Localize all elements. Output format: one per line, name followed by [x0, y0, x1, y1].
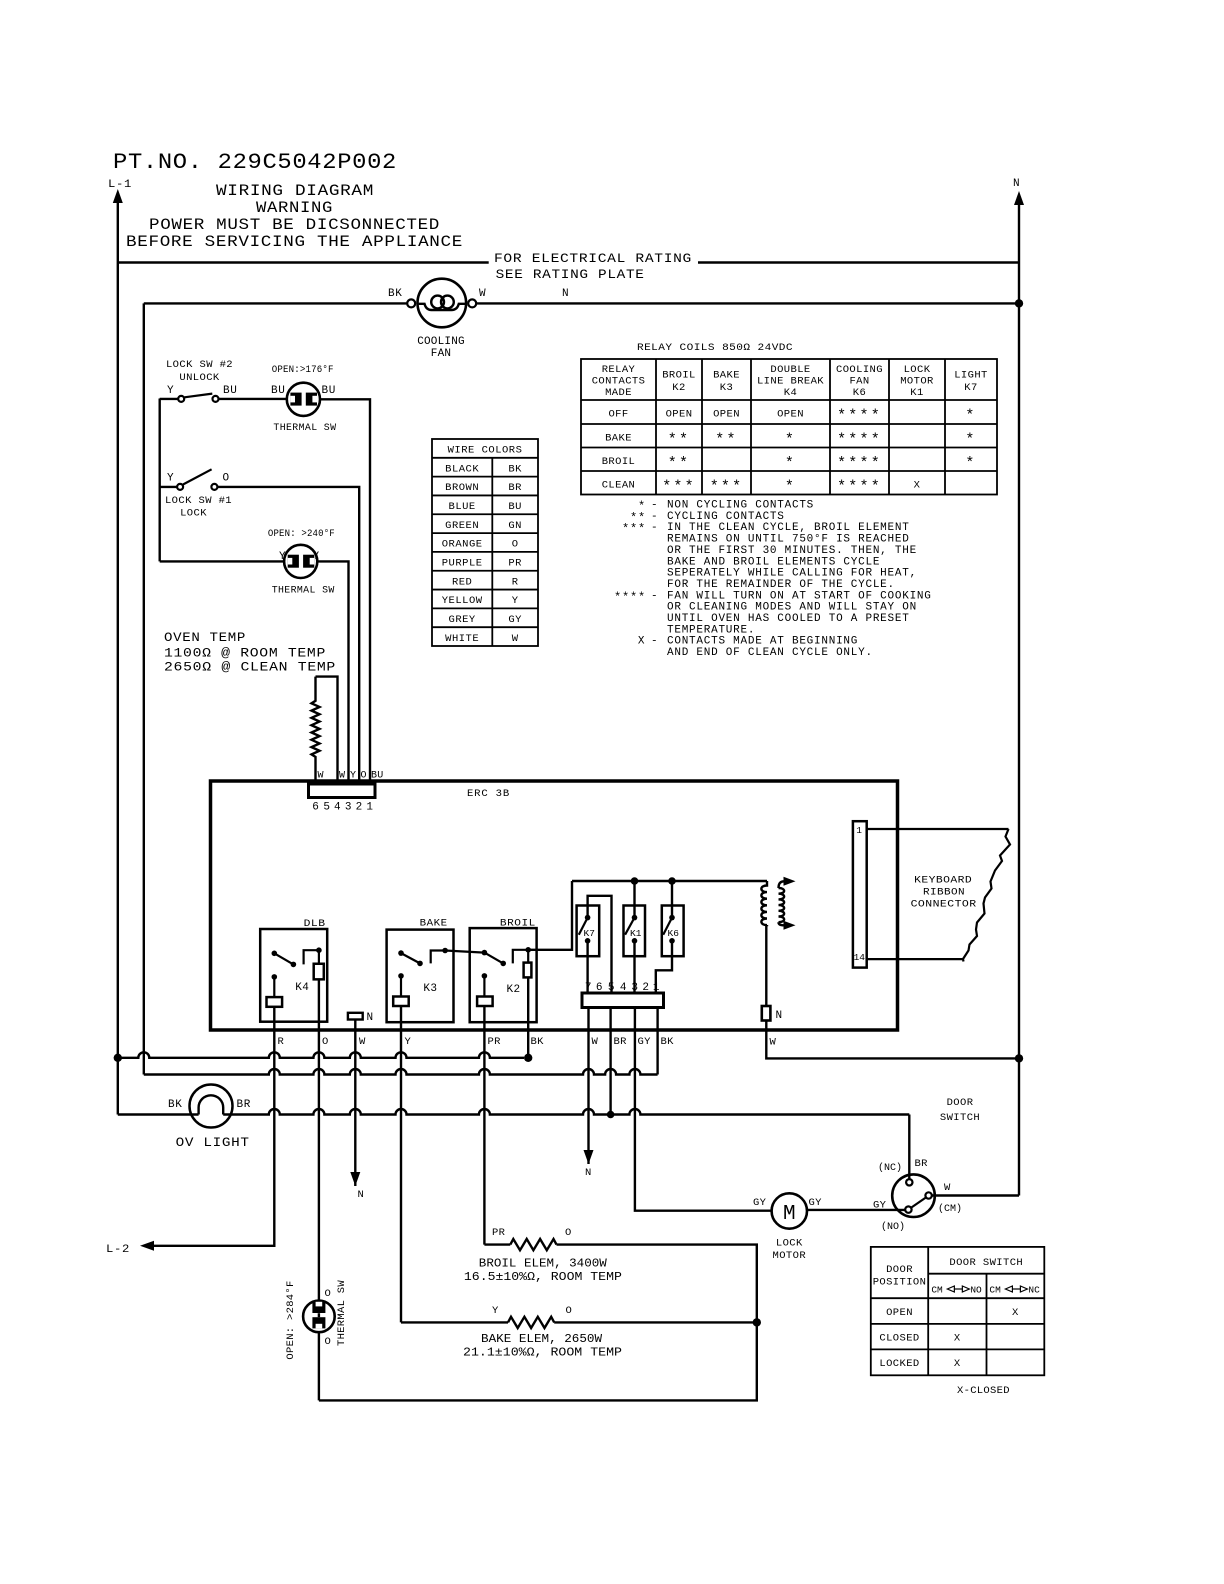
wire transformer primary to N fuse	[765, 925, 767, 1006]
svg-text:Y: Y	[350, 771, 357, 782]
svg-text:BK: BK	[508, 463, 522, 475]
svg-text:CONTACTS MADE AT BEGINNING: CONTACTS MADE AT BEGINNING	[667, 636, 858, 648]
svg-text:RELAY: RELAY	[602, 364, 636, 376]
svg-text:K1: K1	[910, 387, 923, 399]
wire BK bus L1 feed	[144, 1069, 658, 1075]
svg-text:CLOSED: CLOSED	[879, 1333, 919, 1345]
wire rail to thermal sw 240F	[160, 560, 285, 562]
svg-text:*: *	[785, 431, 796, 448]
svg-text:LOCK: LOCK	[180, 508, 207, 520]
svg-text:ORANGE: ORANGE	[442, 539, 483, 551]
svg-text:W: W	[339, 771, 346, 782]
svg-text:-: -	[651, 522, 658, 534]
svg-text:***: ***	[622, 522, 646, 536]
svg-text:WIRE COLORS: WIRE COLORS	[448, 445, 523, 457]
svg-text:K4: K4	[295, 982, 309, 994]
wire Y to bake element	[401, 1321, 508, 1323]
svg-text:N: N	[1013, 178, 1020, 190]
svg-text:K3: K3	[720, 382, 733, 394]
svg-text:BAKE: BAKE	[420, 918, 448, 930]
svg-text:DOUBLE: DOUBLE	[770, 364, 810, 376]
svg-text:**: **	[668, 455, 690, 472]
svg-text:BLACK: BLACK	[445, 463, 479, 475]
svg-text:BU: BU	[271, 385, 285, 397]
svg-text:BROIL: BROIL	[500, 918, 536, 930]
switch lock SW #2	[160, 398, 178, 400]
wire lock sw1 to ERC pin 2	[218, 487, 360, 784]
svg-text:1: 1	[856, 825, 862, 836]
wire K6 to pin 1	[656, 941, 672, 993]
wire K4 to O	[318, 979, 320, 1300]
svg-text:BK: BK	[168, 1099, 182, 1111]
svg-text:W: W	[359, 1036, 366, 1048]
thermal switch 240F	[284, 545, 317, 578]
svg-text:14: 14	[854, 952, 866, 963]
switch lock SW #1	[160, 486, 177, 488]
svg-text:K7: K7	[964, 382, 977, 394]
svg-text:NO: NO	[970, 1285, 982, 1296]
svg-text:THERMAL SW: THERMAL SW	[336, 1280, 348, 1346]
relay K2 left terminal	[482, 973, 488, 979]
svg-text:O: O	[566, 1305, 573, 1317]
svg-text:O: O	[223, 473, 230, 485]
svg-text:PT.NO. 229C5042P002: PT.NO. 229C5042P002	[113, 150, 397, 175]
svg-text:SEE RATING PLATE: SEE RATING PLATE	[496, 267, 645, 282]
wire elements return line	[319, 1322, 757, 1400]
resistor oven temp sensor	[316, 677, 338, 784]
transformer relay coil supply	[761, 881, 767, 925]
svg-text:2: 2	[356, 802, 363, 814]
table relay contacts	[581, 359, 997, 495]
wire relay coil bus	[572, 880, 767, 882]
svg-text:****: ****	[837, 431, 882, 448]
svg-text:PR: PR	[492, 1227, 506, 1239]
svg-text:N: N	[562, 288, 569, 300]
switch door switch	[892, 1174, 935, 1217]
svg-text:BK: BK	[531, 1036, 545, 1048]
wire L1 to OV light	[118, 1113, 199, 1115]
svg-text:X: X	[1012, 1307, 1019, 1319]
svg-text:Y: Y	[512, 595, 519, 607]
relay K2 contact	[482, 950, 488, 956]
svg-text:NC: NC	[1028, 1285, 1040, 1296]
lamp OV LIGHT	[190, 1085, 233, 1128]
svg-text:****: ****	[837, 408, 882, 425]
svg-text:K7: K7	[584, 928, 595, 939]
wire ribbon cable top edge	[867, 828, 1009, 830]
svg-text:W: W	[944, 1182, 951, 1194]
svg-text:X-CLOSED: X-CLOSED	[957, 1385, 1010, 1397]
connector N spade	[348, 1013, 363, 1020]
connector ERC 6-pin	[309, 784, 376, 798]
svg-text:REMAINS ON UNTIL 750°F IS REAC: REMAINS ON UNTIL 750°F IS REACHED	[667, 534, 910, 546]
svg-text:O: O	[565, 1227, 572, 1239]
svg-text:***: ***	[662, 478, 696, 495]
wire K3 fixed contact to K2 pivot	[445, 951, 484, 953]
svg-text:BK: BK	[388, 288, 402, 300]
resistor broil element	[510, 1239, 556, 1250]
wire BK keyboard	[656, 1008, 658, 1075]
svg-text:BK: BK	[661, 1036, 675, 1048]
svg-text:BR: BR	[508, 482, 522, 494]
wire K2 common to relay coil bus	[528, 881, 572, 950]
svg-text:R: R	[512, 576, 519, 588]
svg-text:MADE: MADE	[605, 387, 632, 399]
svg-text:THERMAL SW: THERMAL SW	[273, 422, 336, 434]
wire ribbon cable bottom edge	[867, 958, 963, 960]
svg-text:LINE BREAK: LINE BREAK	[757, 376, 824, 388]
svg-text:WHITE: WHITE	[445, 633, 479, 645]
wire L1 bus to BROIL BK	[118, 1052, 524, 1058]
svg-text:W: W	[479, 288, 486, 300]
wire broil element to common	[557, 1245, 757, 1323]
svg-text:WARNING: WARNING	[256, 199, 333, 217]
table wire colors	[432, 439, 538, 646]
motor lock motor	[772, 1193, 807, 1228]
svg-text:O: O	[325, 1288, 332, 1300]
wire thermal 240F to ERC pin 3	[317, 561, 348, 784]
svg-text:GY: GY	[638, 1036, 652, 1048]
svg-text:PR: PR	[488, 1036, 502, 1048]
svg-text:NON CYCLING CONTACTS: NON CYCLING CONTACTS	[667, 500, 814, 512]
svg-text:5: 5	[323, 802, 330, 814]
svg-text:OPEN:>176°F: OPEN:>176°F	[272, 364, 334, 376]
thermal switch 284F	[318, 1301, 320, 1401]
svg-text:FOR THE REMAINDER OF THE CYCLE: FOR THE REMAINDER OF THE CYCLE.	[667, 579, 895, 591]
svg-text:SEPERATELY WHILE CALLING FOR H: SEPERATELY WHILE CALLING FOR HEAT,	[667, 568, 917, 580]
wire R to L-2	[154, 1007, 274, 1246]
relay K3 contact	[398, 950, 404, 956]
svg-text:X: X	[954, 1333, 961, 1345]
svg-text:BU: BU	[322, 385, 336, 397]
svg-text:-: -	[651, 636, 658, 648]
svg-text:O: O	[322, 1036, 329, 1048]
wire L1 branch to cooling fan	[144, 302, 408, 304]
svg-text:L-2: L-2	[106, 1244, 130, 1256]
svg-text:CM: CM	[931, 1285, 943, 1296]
svg-text:CYCLING CONTACTS: CYCLING CONTACTS	[667, 511, 785, 523]
wire cooling fan to N rail	[476, 302, 1019, 304]
svg-text:BAKE AND BROIL ELEMENTS CYCLE: BAKE AND BROIL ELEMENTS CYCLE	[667, 556, 880, 568]
svg-text:N: N	[358, 1189, 365, 1201]
svg-text:OPEN: >284°F: OPEN: >284°F	[285, 1280, 297, 1359]
svg-text:BROWN: BROWN	[445, 482, 479, 494]
svg-text:OV LIGHT: OV LIGHT	[176, 1135, 250, 1150]
svg-text:YELLOW: YELLOW	[442, 595, 483, 607]
wire Y down to bake element	[400, 1006, 402, 1322]
svg-text:DOOR: DOOR	[947, 1097, 974, 1109]
svg-text:*: *	[965, 408, 976, 425]
svg-text:3: 3	[345, 802, 352, 814]
svg-text:BR: BR	[237, 1099, 251, 1111]
svg-text:CONTACTS: CONTACTS	[592, 376, 646, 388]
svg-text:CM: CM	[989, 1285, 1001, 1296]
svg-text:16.5±10%Ω, ROOM TEMP: 16.5±10%Ω, ROOM TEMP	[464, 1270, 622, 1284]
svg-text:MOTOR: MOTOR	[773, 1250, 807, 1262]
transformer secondary leads with arrows	[779, 881, 789, 888]
svg-text:GY: GY	[508, 614, 522, 626]
svg-text:BR: BR	[614, 1036, 628, 1048]
junction dot BR at OV light line	[607, 1111, 615, 1119]
cooling fan motor	[407, 299, 415, 307]
svg-text:POSITION: POSITION	[873, 1277, 927, 1289]
svg-text:UNLOCK: UNLOCK	[179, 372, 220, 384]
junction dot L1 bus at BK	[524, 1054, 532, 1062]
svg-text:BU: BU	[508, 501, 522, 513]
svg-text:LIGHT: LIGHT	[954, 370, 988, 382]
relay K4 left terminal	[272, 974, 278, 980]
svg-text:LOCK SW #1: LOCK SW #1	[165, 495, 232, 507]
svg-text:*: *	[785, 455, 796, 472]
relay DLB K4 box	[260, 929, 327, 1022]
svg-text:POWER MUST BE DICSONNECTED: POWER MUST BE DICSONNECTED	[149, 216, 440, 234]
ribbon cable torn edge	[963, 829, 1010, 962]
relay K3 left terminal	[398, 973, 404, 979]
svg-text:W: W	[592, 1036, 599, 1048]
svg-text:LOCK: LOCK	[776, 1238, 803, 1250]
svg-text:-: -	[651, 590, 658, 602]
svg-text:Y: Y	[405, 1036, 412, 1048]
svg-text:Y: Y	[279, 551, 286, 563]
svg-text:KEYBOARD: KEYBOARD	[914, 875, 972, 887]
relay K2 coil	[524, 963, 532, 978]
junction dot N rail / cooling fan line	[1015, 299, 1023, 307]
svg-text:****: ****	[614, 590, 646, 604]
wire lock sw2 to thermal sw 176F	[219, 398, 288, 400]
svg-text:GREY: GREY	[449, 614, 476, 626]
wire K7 to pin 7	[586, 941, 588, 993]
svg-text:-: -	[651, 511, 658, 523]
wire K1 to pin 3	[633, 941, 635, 993]
svg-text:LOCK SW #2: LOCK SW #2	[166, 359, 233, 371]
svg-text:K4: K4	[784, 387, 797, 399]
connector ERC lower 7-pin	[582, 993, 664, 1008]
wire W keyboard	[587, 1008, 589, 1165]
svg-text:****: ****	[837, 455, 882, 472]
svg-text:COOLING: COOLING	[417, 336, 465, 348]
svg-text:FAN: FAN	[849, 376, 869, 388]
wire door switch CM to N rail	[932, 1194, 1019, 1196]
svg-text:OFF: OFF	[608, 409, 628, 421]
door switch terminals and blade	[906, 1179, 912, 1185]
wire PR down to broil element	[483, 1006, 485, 1245]
svg-text:PR: PR	[508, 558, 522, 570]
svg-text:PURPLE: PURPLE	[442, 558, 483, 570]
svg-text:***: ***	[710, 478, 744, 495]
svg-text:DLB: DLB	[304, 918, 326, 930]
svg-text:6: 6	[312, 802, 319, 814]
svg-text:CONNECTOR: CONNECTOR	[911, 899, 977, 911]
svg-text:R: R	[278, 1036, 285, 1048]
svg-text:O: O	[512, 539, 519, 551]
svg-text:**: **	[715, 431, 737, 448]
svg-text:BROIL: BROIL	[602, 456, 636, 468]
svg-text:MOTOR: MOTOR	[900, 376, 934, 388]
relay K7	[577, 906, 600, 957]
svg-text:GN: GN	[508, 520, 522, 532]
svg-text:OPEN: OPEN	[777, 409, 804, 421]
wire BR keyboard	[609, 1008, 611, 1115]
wire BK from K2 down to L1 bus	[527, 977, 529, 1057]
wire W neutral to bus	[766, 1021, 1019, 1059]
node L-1 rail with up arrow	[113, 189, 123, 203]
svg-text:N: N	[776, 1010, 783, 1022]
resistor bake element	[508, 1317, 554, 1328]
svg-text:OR CLEANING MODES AND WILL STA: OR CLEANING MODES AND WILL STAY ON	[667, 602, 917, 614]
svg-text:W: W	[318, 771, 325, 782]
wire door switch NO to lock motor	[807, 1209, 905, 1211]
svg-text:BAKE ELEM, 2650W: BAKE ELEM, 2650W	[481, 1332, 603, 1346]
svg-text:O: O	[361, 771, 368, 782]
relay K4 coil	[314, 964, 324, 980]
svg-text:DOOR: DOOR	[886, 1264, 913, 1276]
svg-text:X: X	[954, 1358, 961, 1370]
svg-text:K2: K2	[672, 382, 685, 394]
svg-text:THERMAL SW: THERMAL SW	[272, 585, 335, 597]
svg-text:Y: Y	[167, 385, 174, 397]
svg-text:OPEN: >240°F: OPEN: >240°F	[268, 528, 335, 540]
svg-text:GY: GY	[809, 1197, 823, 1209]
svg-text:1100Ω @ ROOM TEMP: 1100Ω @ ROOM TEMP	[164, 646, 326, 661]
svg-text:RED: RED	[452, 576, 472, 588]
svg-text:FAN: FAN	[431, 348, 451, 360]
svg-text:OPEN: OPEN	[886, 1307, 913, 1319]
svg-text:K2: K2	[507, 984, 521, 996]
wire PR to broil element	[484, 1243, 510, 1245]
svg-text:Y: Y	[492, 1305, 499, 1317]
svg-text:Y: Y	[167, 473, 174, 485]
wire BK rail down left side	[143, 303, 145, 1074]
svg-text:TEMPERATURE.: TEMPERATURE.	[667, 624, 755, 636]
svg-text:21.1±10%Ω, ROOM TEMP: 21.1±10%Ω, ROOM TEMP	[463, 1346, 622, 1360]
connector keyboard ribbon	[853, 821, 867, 967]
svg-text:M: M	[783, 1203, 796, 1226]
svg-text:RELAY COILS 850Ω 24VDC: RELAY COILS 850Ω 24VDC	[637, 342, 793, 354]
svg-text:OPEN: OPEN	[713, 409, 740, 421]
relay K6	[662, 906, 684, 957]
svg-text:*: *	[785, 478, 796, 495]
relay BROIL K2 box	[470, 928, 537, 1022]
svg-text:OR THE FIRST 30 MINUTES. THEN,: OR THE FIRST 30 MINUTES. THEN, THE	[667, 545, 917, 557]
svg-text:K3: K3	[423, 983, 437, 995]
svg-text:BROIL ELEM, 3400W: BROIL ELEM, 3400W	[479, 1257, 608, 1271]
svg-text:LOCK: LOCK	[904, 364, 931, 376]
svg-text:K6: K6	[853, 387, 866, 399]
svg-text:(NO): (NO)	[881, 1221, 905, 1233]
svg-text:2650Ω @ CLEAN TEMP: 2650Ω @ CLEAN TEMP	[164, 660, 336, 675]
svg-text:BU: BU	[223, 385, 237, 397]
svg-text:GY: GY	[873, 1200, 887, 1212]
svg-text:IN THE CLEAN CYCLE, BROIL ELEM: IN THE CLEAN CYCLE, BROIL ELEMENT	[667, 522, 910, 534]
svg-text:*: *	[965, 455, 976, 472]
fuse N	[762, 1006, 771, 1021]
svg-text:LOCKED: LOCKED	[879, 1358, 919, 1370]
svg-text:BAKE: BAKE	[605, 432, 632, 444]
svg-text:UNTIL OVEN HAS COOLED TO A PRE: UNTIL OVEN HAS COOLED TO A PRESET	[667, 613, 910, 625]
table door switch	[871, 1247, 1045, 1375]
wire GY keyboard	[635, 1008, 772, 1211]
svg-text:(NC): (NC)	[878, 1162, 902, 1174]
svg-text:X: X	[638, 636, 645, 648]
svg-text:N: N	[367, 1012, 374, 1024]
svg-text:**: **	[668, 431, 690, 448]
junction dot N rail / neutral bus	[1015, 1054, 1023, 1062]
wire thermal sw 176F to ERC pin 1	[320, 399, 370, 784]
junction dot elements common	[753, 1318, 761, 1326]
svg-text:O: O	[325, 1336, 332, 1348]
relay K4 contact	[272, 951, 278, 957]
svg-text:4: 4	[334, 802, 341, 814]
svg-text:K6: K6	[668, 928, 680, 939]
svg-text:N: N	[585, 1167, 592, 1179]
lamp filament	[199, 1095, 224, 1114]
wire OV light / door switch line	[223, 1109, 909, 1115]
svg-text:COOLING: COOLING	[836, 364, 883, 376]
svg-text:OPEN: OPEN	[666, 409, 693, 421]
svg-text:OVEN TEMP: OVEN TEMP	[164, 630, 246, 645]
thermal switch 176F	[287, 383, 320, 416]
relay BAKE K3 box	[387, 930, 454, 1023]
svg-text:W: W	[512, 633, 519, 645]
svg-text:1: 1	[366, 802, 373, 814]
svg-text:RIBBON: RIBBON	[923, 887, 965, 899]
svg-text:(CM): (CM)	[938, 1203, 962, 1215]
svg-text:DOOR SWITCH: DOOR SWITCH	[949, 1257, 1023, 1269]
wire BR to door switch NC	[908, 1115, 910, 1180]
svg-text:AND END OF CLEAN CYCLE ONLY.: AND END OF CLEAN CYCLE ONLY.	[667, 647, 873, 659]
svg-text:BU: BU	[371, 771, 383, 782]
svg-text:BLUE: BLUE	[449, 501, 476, 513]
wire bake element to common	[554, 1321, 757, 1323]
relay K1	[624, 906, 646, 957]
svg-text:BEFORE SERVICING THE APPLIANCE: BEFORE SERVICING THE APPLIANCE	[126, 233, 463, 251]
svg-text:GREEN: GREEN	[445, 520, 479, 532]
svg-text:SWITCH: SWITCH	[940, 1112, 980, 1124]
svg-text:W: W	[770, 1037, 777, 1049]
wire top line L-1 to right (left segment)	[118, 261, 489, 263]
svg-text:ERC 3B: ERC 3B	[467, 788, 510, 800]
svg-text:K1: K1	[630, 928, 642, 939]
junction dot L1 bus left	[114, 1054, 122, 1062]
svg-text:FOR ELECTRICAL RATING: FOR ELECTRICAL RATING	[494, 251, 692, 266]
svg-text:*: *	[965, 431, 976, 448]
svg-text:-: -	[651, 500, 658, 512]
svg-text:GY: GY	[753, 1197, 767, 1209]
svg-text:****: ****	[837, 478, 882, 495]
svg-text:L-1: L-1	[108, 179, 132, 191]
ERC 3B controller box	[211, 781, 898, 1030]
svg-text:BROIL: BROIL	[662, 370, 696, 382]
svg-text:FAN WILL TURN ON AT START OF C: FAN WILL TURN ON AT START OF COOKING	[667, 590, 932, 602]
svg-text:CLEAN: CLEAN	[602, 479, 636, 491]
svg-text:X: X	[914, 479, 921, 491]
node lock switch rail	[158, 399, 160, 562]
wire top line (right segment)	[698, 261, 1020, 263]
wire W from N spade down to N arrow	[354, 1020, 356, 1187]
svg-text:WIRING DIAGRAM: WIRING DIAGRAM	[216, 182, 374, 200]
svg-text:BAKE: BAKE	[713, 370, 740, 382]
svg-text:BR: BR	[915, 1158, 929, 1170]
